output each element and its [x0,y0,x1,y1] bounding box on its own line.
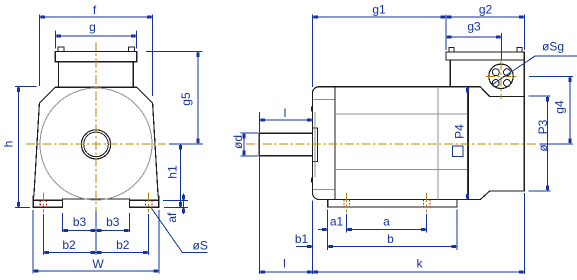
right foot hole centerline [148,193,150,213]
svg-text:a: a [383,215,390,229]
dimension g5 [146,51,203,53]
dimension g1 [311,15,313,87]
left foot hole hidden lines [39,200,41,207]
dimension a [426,214,428,233]
dimension b1 [296,246,312,248]
front face lower boss bump [311,177,314,184]
front view shaft hub inner circle [84,132,109,157]
svg-text:b: b [387,232,394,246]
plate right bolt hole hidden lines [423,200,425,207]
front view body outline [33,87,158,207]
front view neck right side [132,62,134,88]
svg-text:g4: g4 [553,100,567,114]
side flange right bolt tab [517,48,522,52]
dimension P3 [529,95,551,97]
side view casing joint line [334,87,336,200]
mounting plate [328,200,457,207]
port circle [489,64,513,88]
svg-text:øS: øS [193,239,208,253]
shaft collar [312,128,317,162]
svg-text:P3: P3 [536,119,550,134]
dimension b2 left [43,252,96,254]
side view port block right side [523,60,525,97]
dimension a1 [327,210,329,251]
dimension l bottom [260,271,313,273]
svg-text:l: l [284,106,287,120]
svg-text:g: g [89,20,96,34]
side view front section silhouette lines [313,99,335,101]
front view neck left side [58,62,60,88]
svg-text:af: af [165,212,179,223]
svg-text:h: h [2,141,16,148]
svg-text:l: l [283,257,286,271]
side flange left bolt tab [449,48,454,52]
dimension h [15,86,37,88]
svg-text:øSg: øSg [542,40,564,54]
front spigot silhouette line [314,112,316,177]
right foot hole hidden lines [144,200,146,207]
dimension b2 right [96,252,149,254]
port bolt hole top-right [504,69,511,76]
dimension b3 left [62,230,96,232]
front view vertical centerline [95,42,97,218]
dimension b2 extension lines [42,214,44,255]
port circle vertical centerline [500,61,502,99]
left foot top line [33,199,62,201]
side view port block left side [449,60,451,87]
dimension k [524,193,526,274]
label oSg leader [493,56,536,85]
svg-text:ød: ød [231,135,245,149]
dimension g3 [501,33,503,61]
svg-text:g2: g2 [479,3,493,17]
front flange left bolt tab [58,47,64,52]
dimension f [38,15,40,86]
svg-text:b2: b2 [62,238,76,252]
side view left bolt hole centerline [346,193,348,213]
svg-text:b3: b3 [106,215,120,229]
port circle horizontal centerline [486,75,518,77]
centerline extension right [169,143,203,145]
front face upper boss bump [311,106,314,113]
svg-text:a1: a1 [330,215,344,229]
side view horizontal centerline [246,143,536,145]
front view top flange [55,52,136,62]
dimension g2 [523,15,525,50]
dimension b3 right [96,230,130,232]
svg-text:ø: ø [536,144,550,152]
svg-text:b3: b3 [73,215,87,229]
side view lower silhouette line [335,169,468,171]
front view rotor bore circle [40,88,152,200]
dimension l top [260,119,313,121]
svg-text:k: k [417,257,424,271]
plate left bolt hole hidden lines [343,200,345,207]
port bolt hole bottom-left [492,80,499,87]
svg-text:b1: b1 [295,232,309,246]
front view shaft hub outer circle [81,130,110,159]
dimension P4 [467,87,469,200]
svg-text:b2: b2 [116,238,130,252]
label oS leader [151,208,183,253]
side view top flange [446,52,524,60]
right foot top line [130,199,159,201]
svg-text:g3: g3 [467,20,481,34]
svg-text:g5: g5 [179,92,193,106]
shaft end extension line [259,112,261,274]
dimension af [163,199,188,201]
svg-text:g1: g1 [372,3,386,17]
dimension b3 extension lines [61,213,63,232]
dimension od [241,132,259,134]
side view mid gray line [437,87,439,200]
dimension g [54,31,56,49]
front face extension line bottom [311,201,313,275]
front view horizontal centerline [26,143,166,145]
dimension b [456,210,458,251]
dimension h1 [180,144,182,207]
side view rear end line [467,87,469,200]
left foot hole centerline [42,193,44,213]
port bolt hole bottom-right [504,80,511,87]
dimension g4 [529,75,573,77]
front flange right bolt tab [129,47,135,52]
side view body outline [312,87,524,200]
side view right bolt hole centerline [425,193,427,213]
shaft [259,133,312,156]
side view upper silhouette line [335,113,468,115]
svg-text:h1: h1 [166,165,180,179]
dimension W [32,210,34,274]
port bolt hole top-left [492,69,499,76]
svg-text:W: W [92,257,104,271]
svg-text:P4: P4 [453,124,467,139]
